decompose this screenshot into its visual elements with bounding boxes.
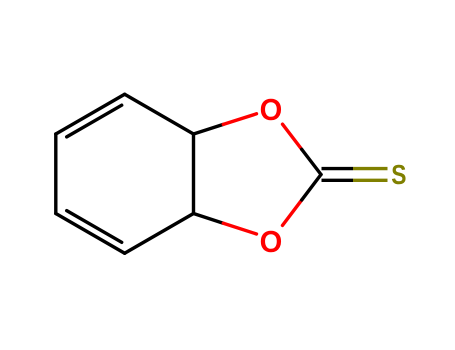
wire: bond O(bottom)-C2, black half [302, 175, 321, 200]
wire: bond O(top)-C2, red half [283, 124, 302, 149]
wire: benzene edge C5-C6 (left) [54, 134, 57, 214]
benzene ring outline [56, 94, 194, 253]
wire: bond C7a-O(bottom), black half [194, 214, 224, 224]
wire: benzene edge C4-C5 (top-left) [56, 94, 125, 134]
wire: C=S upper line, black half [322, 167, 354, 170]
wire: benzene edge C3a-C7a (fused, right vertical) [192, 134, 195, 214]
wire: inner double-bond line C6=C7 [67, 211, 122, 243]
wire: benzene edge C4-C3a (top-right) [125, 94, 194, 134]
svg-text:O: O [260, 225, 283, 259]
wire: bond C7a-O(bottom), red half [223, 223, 256, 234]
wire: C=S upper line, olive half [353, 167, 388, 170]
wire: bond O(bottom)-C2, red half [283, 200, 302, 225]
wire: C=S lower line, black half [322, 179, 354, 182]
wire: C=S lower line, olive half [353, 179, 388, 182]
five-membered ring bonds [194, 114, 322, 234]
wire: benzene edge C6-C7 (bottom-left) [56, 214, 125, 254]
wire: benzene edge C7-C7a (bottom-right) [125, 214, 194, 254]
wire: bond C3a-O(top), black half [194, 124, 224, 134]
wire: inner double-bond line C4=C5 [67, 105, 122, 137]
wire: bond O(top)-C2, black half [302, 149, 321, 174]
svg-text:S: S [391, 160, 406, 191]
svg-text:O: O [260, 93, 283, 127]
C=S double bond [322, 169, 388, 181]
wire: bond C3a-O(top), red half [223, 114, 256, 125]
